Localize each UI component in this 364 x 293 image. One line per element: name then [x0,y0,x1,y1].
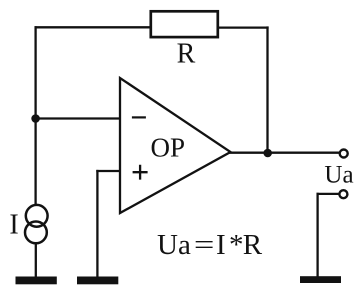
terminal: Ua upper open circle [340,150,348,158]
svg-text:R: R [177,39,196,70]
node: output junction [263,149,272,158]
minus sign [132,116,146,118]
terminal: Ua lower open circle [339,190,347,198]
wire: inverting input horizontal [36,117,120,119]
wire: top feedback left segment [35,26,152,28]
wire: left vertical [34,26,36,204]
wire: output horizontal [230,152,340,154]
ground under non-inverting input [77,277,118,285]
node: inverting input junction [31,114,40,123]
wire: current source to ground [35,244,37,278]
svg-text:OP: OP [151,133,186,163]
op-amp OP [120,78,231,213]
wire: right vertical feedback [266,26,268,153]
wire: lower terminal vertical to ground [316,193,318,277]
resistor R [151,11,218,37]
svg-text:Ua: Ua [324,161,353,188]
ground under Ua return [300,276,341,283]
svg-text:Ua=I*R: Ua=I*R [157,229,263,261]
svg-text:I: I [9,210,18,241]
wire: top feedback right segment [218,26,269,28]
wire: lower terminal horizontal [317,193,340,195]
wire: non-inverting input horizontal [96,170,120,172]
ground under current source [16,277,57,285]
plus sign [133,165,148,180]
current source I (two overlapping circles) [26,205,48,227]
wire: non-inverting input vertical to ground [96,170,98,278]
